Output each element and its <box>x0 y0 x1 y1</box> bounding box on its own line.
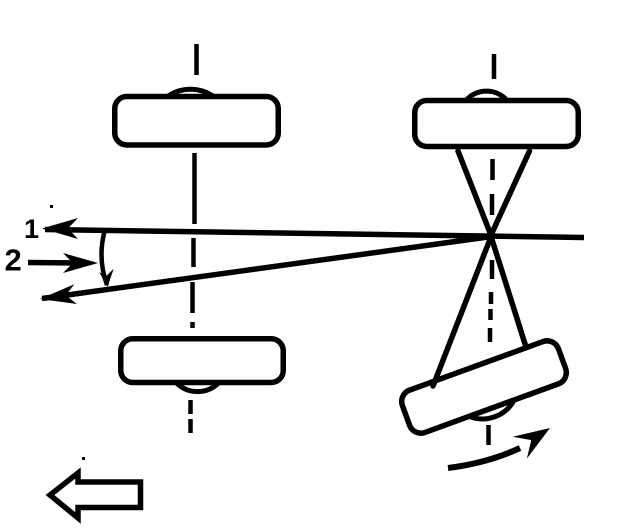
svg-text:2: 2 <box>5 243 22 278</box>
svg-text:1: 1 <box>24 214 39 244</box>
